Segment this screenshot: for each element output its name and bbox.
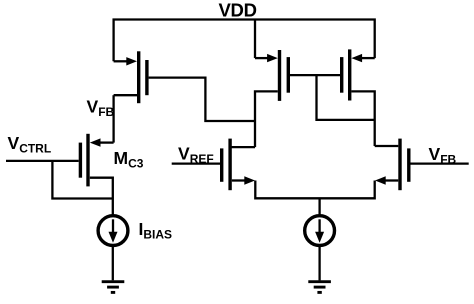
- wire M3 drain down to M5 drain: [351, 91, 374, 146]
- wire VCTRL input: [6, 160, 79, 162]
- transistor M4 source arrow (to tail): [232, 176, 255, 184]
- wire VFB right input: [411, 162, 469, 164]
- wire tail rail (common sources): [255, 181, 374, 199]
- ground (left, under IBIAS): [102, 282, 125, 293]
- wire IBIAS to ground: [112, 245, 114, 280]
- wire M2 drain down to M4 drain: [255, 91, 278, 147]
- transistor M3 source arrow (from VDD): [351, 54, 374, 62]
- wire gate node to M3 drain (diode connection): [317, 75, 375, 120]
- wire M5 drain: [375, 145, 399, 147]
- transistor M5 (right NMOS of diff pair): [400, 139, 409, 191]
- svg-text:VDD: VDD: [219, 0, 257, 21]
- transistor M3 (top-right PMOS): [342, 49, 350, 100]
- svg-text:IBIAS: IBIAS: [139, 219, 173, 242]
- wire M1 gate to M2-drain node: [149, 78, 255, 121]
- wire M4 drain: [230, 146, 255, 148]
- transistor M1 (top-left PMOS): [139, 51, 147, 103]
- wire node VFB vertical (M1 drain to MC3): [112, 95, 114, 142]
- current source tail: [305, 216, 335, 246]
- transistor M4 (left NMOS of diff pair): [222, 139, 230, 191]
- transistor MC3 top arrow (from VFB node): [90, 138, 114, 146]
- transistor M2 (top-center PMOS): [280, 50, 289, 101]
- transistor MC3: [80, 134, 88, 187]
- svg-text:VCTRL: VCTRL: [8, 133, 52, 156]
- wire VDD middle drop to M2: [254, 20, 256, 59]
- wire VREF input: [172, 162, 220, 164]
- current source IBIAS: [98, 216, 128, 246]
- wire VDD rail with left and right drops: [114, 20, 375, 62]
- wire tail node to current source: [318, 198, 320, 216]
- ground (right, under tail source): [308, 282, 331, 293]
- wire M1 drain: [114, 94, 137, 96]
- transistor M5 source arrow (to tail): [375, 176, 398, 184]
- svg-text:VFB: VFB: [87, 97, 115, 120]
- wire M2 gate to M3 gate: [290, 74, 340, 76]
- transistor M1 source arrow (from VDD): [114, 57, 137, 65]
- transistor M2 source arrow (from VDD): [255, 54, 278, 62]
- svg-text:VREF: VREF: [178, 144, 214, 167]
- wire VCTRL to MC3 source loop: [52, 161, 112, 199]
- wire MC3 source down to IBIAS: [90, 178, 113, 216]
- svg-text:MC3: MC3: [114, 148, 144, 171]
- wire tail current source to ground: [318, 245, 320, 280]
